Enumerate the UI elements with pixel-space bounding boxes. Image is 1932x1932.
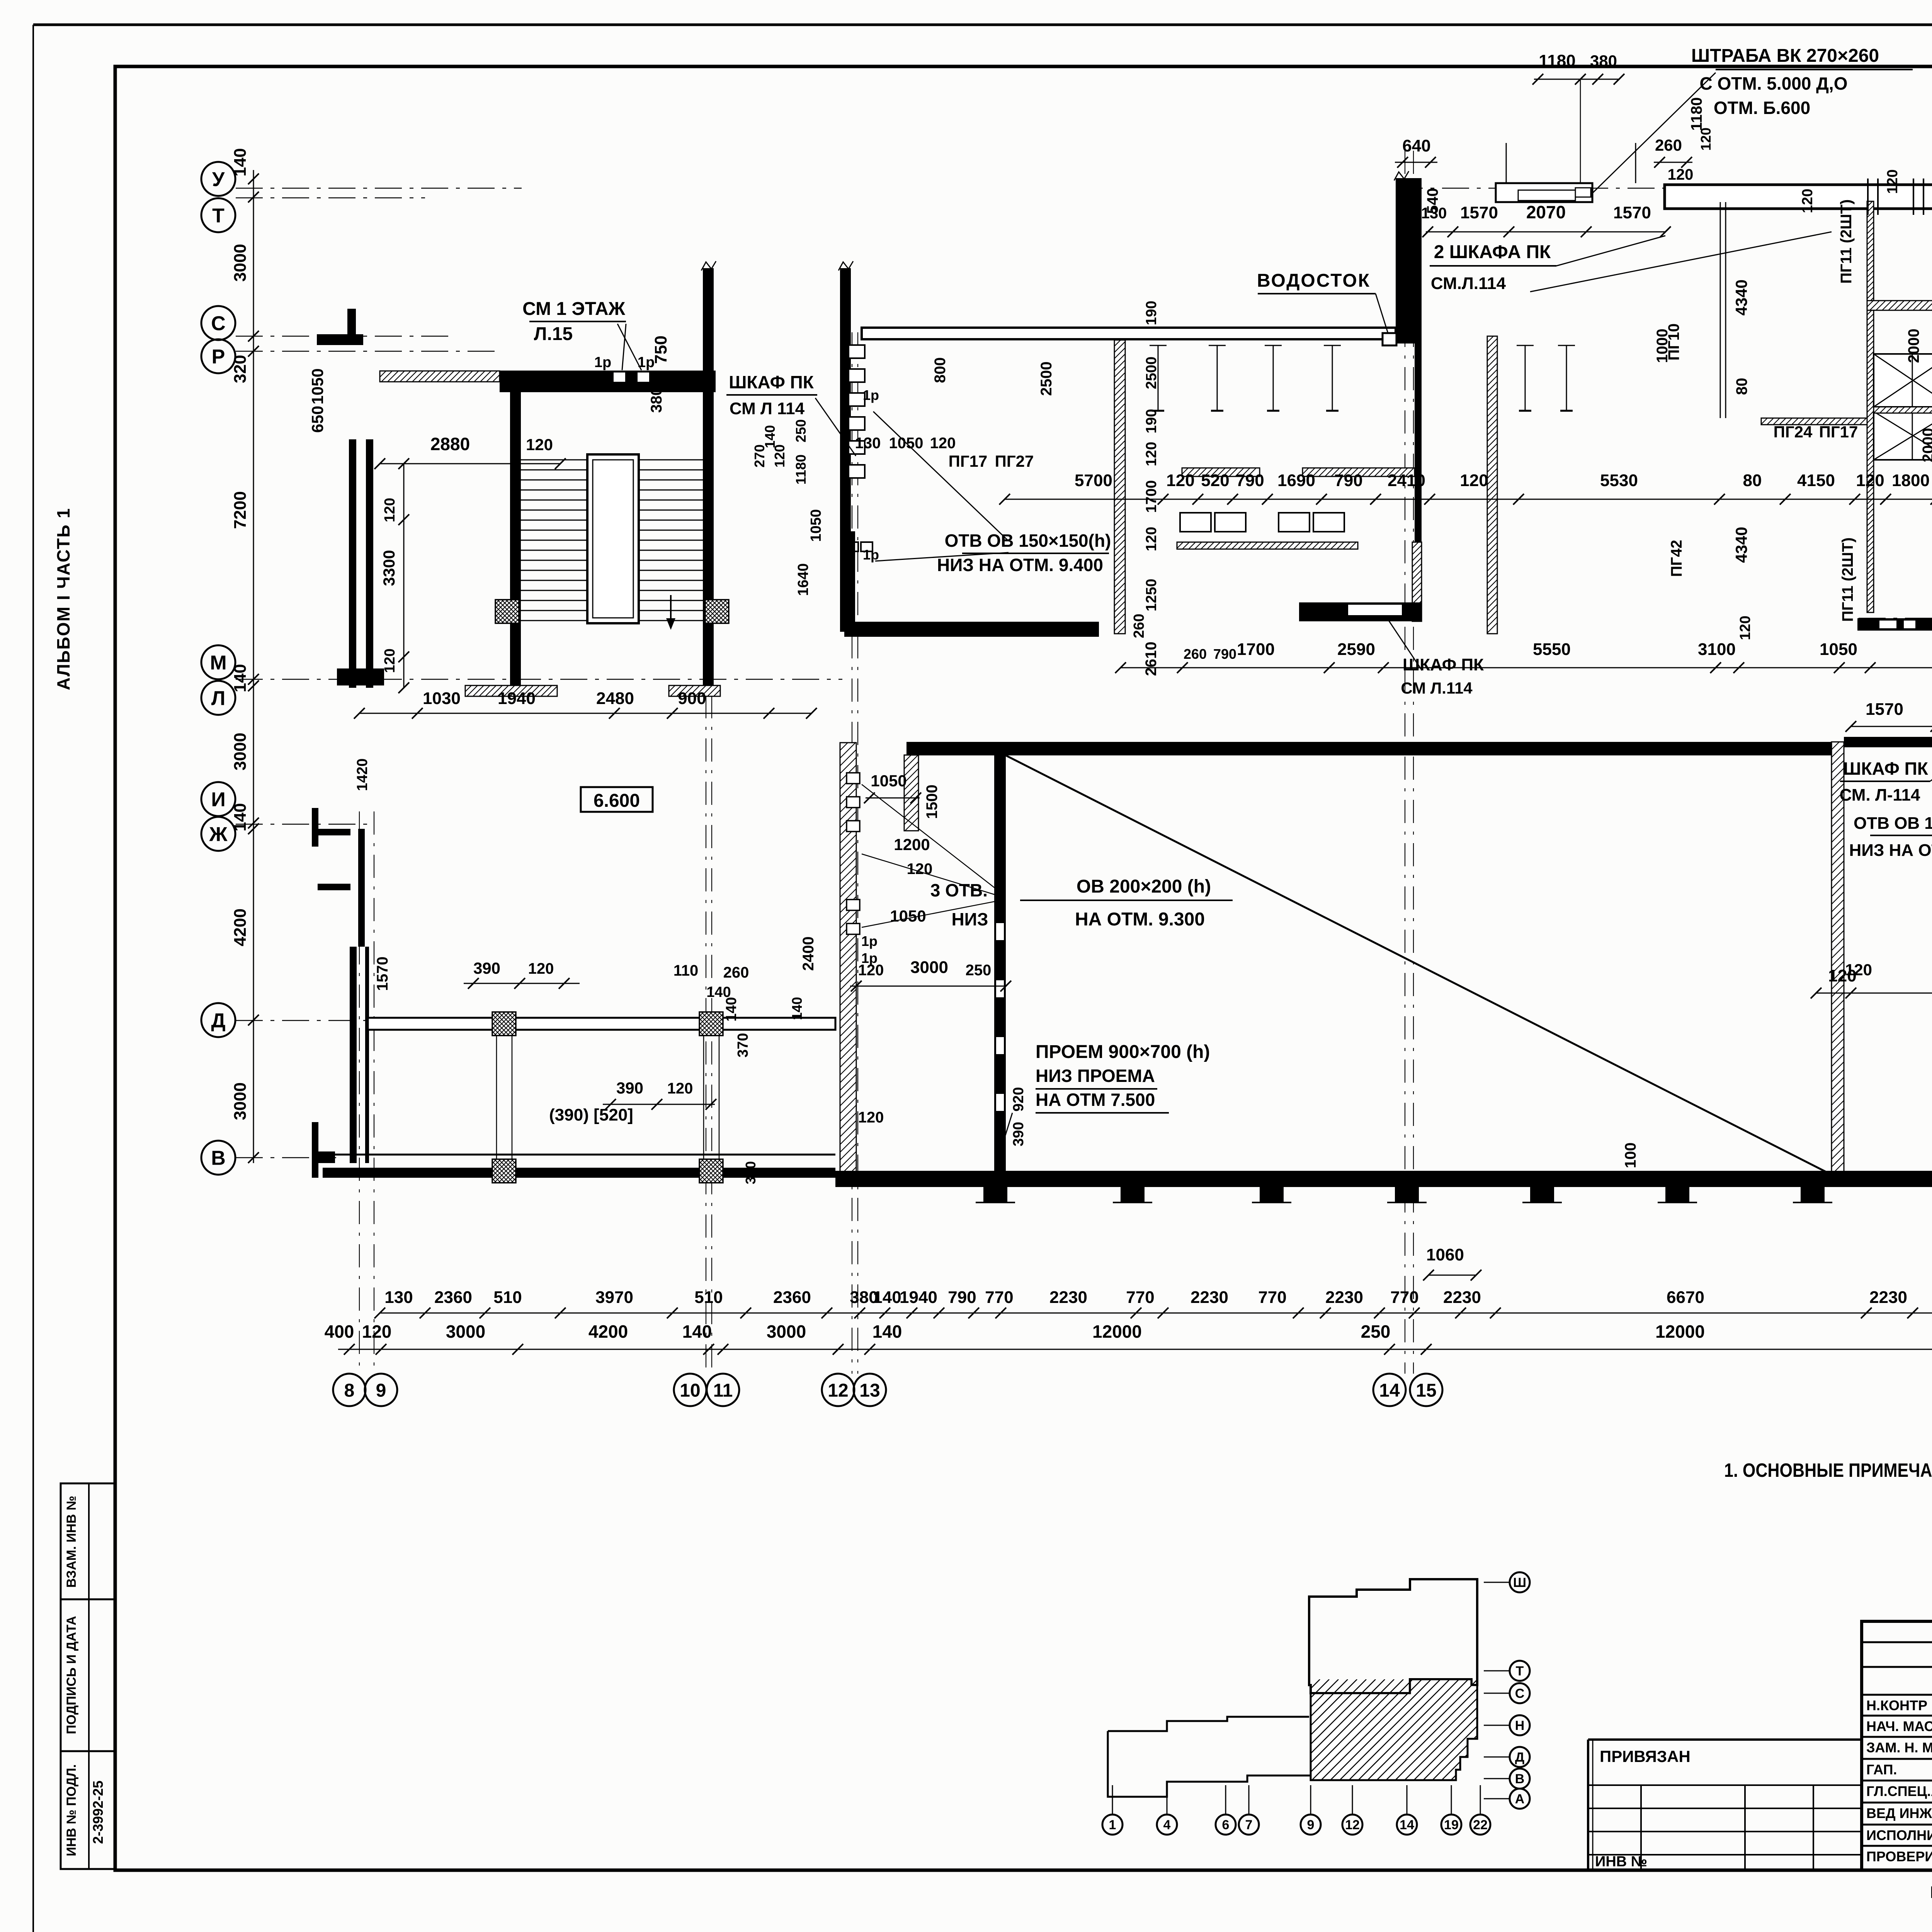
svg-text:Ж: Ж <box>209 823 228 846</box>
bottom dim chain row1 <box>380 1313 1932 1314</box>
svg-text:770: 770 <box>1126 1288 1154 1307</box>
svg-text:7: 7 <box>1245 1818 1253 1832</box>
svg-text:СМ 1 ЭТАЖ: СМ 1 ЭТАЖ <box>522 299 625 319</box>
axis bubbles left <box>201 162 235 196</box>
svg-text:120: 120 <box>526 435 553 454</box>
svg-text:Л.15: Л.15 <box>534 324 573 344</box>
svg-text:7200: 7200 <box>231 491 250 529</box>
svg-text:5550: 5550 <box>1533 640 1571 659</box>
svg-text:1690: 1690 <box>1277 471 1315 490</box>
svg-text:3000: 3000 <box>231 244 250 282</box>
svg-text:800: 800 <box>932 357 949 383</box>
svg-text:140: 140 <box>682 1321 712 1342</box>
wall: corridor north <box>368 1018 835 1030</box>
svg-text:ИНВ №: ИНВ № <box>1595 1854 1647 1870</box>
svg-text:390: 390 <box>743 1161 759 1184</box>
svg-text:19: 19 <box>1444 1818 1459 1832</box>
svg-text:650: 650 <box>308 406 327 433</box>
svg-text:2230: 2230 <box>1190 1288 1228 1307</box>
svg-text:250: 250 <box>966 962 992 979</box>
svg-text:390: 390 <box>616 1079 643 1097</box>
wall: gym east (hatched) <box>1832 742 1844 1175</box>
svg-text:Д: Д <box>1515 1750 1524 1765</box>
svg-text:2 ШКАФА ПК: 2 ШКАФА ПК <box>1434 242 1551 262</box>
partition west of block <box>1720 202 1721 418</box>
svg-text:5530: 5530 <box>1600 471 1638 490</box>
svg-text:2500: 2500 <box>1143 357 1160 389</box>
svg-text:2230: 2230 <box>1869 1288 1907 1307</box>
svg-text:2360: 2360 <box>773 1288 811 1307</box>
svg-text:ОВ 200×200 (h): ОВ 200×200 (h) <box>1077 876 1211 897</box>
svg-text:120: 120 <box>1845 961 1872 979</box>
svg-text:ПРОЕМ 900×700 (h): ПРОЕМ 900×700 (h) <box>1036 1042 1210 1062</box>
svg-text:510: 510 <box>694 1288 723 1307</box>
radiator boxes <box>1180 513 1211 532</box>
svg-text:250: 250 <box>1361 1321 1391 1342</box>
svg-text:400: 400 <box>325 1321 354 1342</box>
svg-text:3000: 3000 <box>910 958 948 977</box>
svg-text:3000: 3000 <box>231 1082 250 1120</box>
wall: vodostok east wall <box>1396 178 1422 232</box>
svg-text:250: 250 <box>793 419 809 442</box>
svg-text:790: 790 <box>1213 646 1236 662</box>
svg-text:1р: 1р <box>861 933 878 949</box>
svg-text:ШТРАБА ВК 270×260: ШТРАБА ВК 270×260 <box>1691 46 1879 66</box>
svg-text:АЛЬБОМ I ЧАСТЬ 1: АЛЬБОМ I ЧАСТЬ 1 <box>53 508 73 690</box>
walls: stair bottom <box>337 668 384 685</box>
vertical axis lines down to bubbles <box>359 811 360 1374</box>
svg-text:НИЗ ПРОЕМА: НИЗ ПРОЕМА <box>1036 1066 1155 1086</box>
svg-text:1050: 1050 <box>871 772 906 790</box>
svg-text:3100: 3100 <box>1698 640 1736 659</box>
svg-text:790: 790 <box>1236 471 1264 490</box>
svg-text:3970: 3970 <box>595 1288 633 1307</box>
штраба detail <box>1496 183 1592 202</box>
svg-text:140: 140 <box>723 997 740 1021</box>
svg-text:120: 120 <box>1143 442 1160 466</box>
svg-text:1000: 1000 <box>1654 329 1671 363</box>
svg-text:790: 790 <box>948 1288 976 1307</box>
svg-text:У: У <box>212 168 225 191</box>
svg-text:190: 190 <box>1143 409 1160 433</box>
svg-text:Ш: Ш <box>1513 1575 1526 1590</box>
svg-text:770: 770 <box>985 1288 1013 1307</box>
И/Ж axis brackets <box>313 829 350 835</box>
outer border <box>33 24 1932 26</box>
svg-text:Т: Т <box>212 205 224 227</box>
svg-text:100: 100 <box>1622 1143 1639 1168</box>
wall: middle west <box>840 268 851 632</box>
svg-text:4150: 4150 <box>1797 471 1835 490</box>
svg-text:120: 120 <box>528 960 554 977</box>
svg-text:640: 640 <box>1402 136 1430 155</box>
svg-text:В: В <box>211 1147 226 1170</box>
svg-text:15: 15 <box>1416 1380 1436 1401</box>
svg-text:790: 790 <box>1334 471 1362 490</box>
svg-text:12000: 12000 <box>1655 1321 1705 1342</box>
svg-text:1570: 1570 <box>1613 203 1651 222</box>
svg-text:6670: 6670 <box>1667 1288 1704 1307</box>
privyazan table <box>1588 1738 1862 1741</box>
wall: middle lower west L <box>844 531 855 632</box>
svg-text:1200: 1200 <box>894 835 930 854</box>
svg-text:2000: 2000 <box>1905 329 1922 363</box>
svg-text:ВЗАМ. ИНВ №: ВЗАМ. ИНВ № <box>64 1496 79 1588</box>
svg-text:Л: Л <box>211 687 226 710</box>
svg-text:190: 190 <box>1143 301 1160 325</box>
svg-text:12000: 12000 <box>1092 1321 1142 1342</box>
svg-text:НИЗ НА ОТМ. 9.400: НИЗ НА ОТМ. 9.400 <box>937 555 1103 575</box>
svg-text:1180: 1180 <box>1539 51 1575 70</box>
svg-text:3300: 3300 <box>380 550 398 586</box>
svg-text:120: 120 <box>382 498 398 522</box>
svg-text:1030: 1030 <box>423 689 461 708</box>
key plan low-rise outline <box>1108 1717 1456 1797</box>
svg-text:2-3992-25: 2-3992-25 <box>90 1781 106 1844</box>
svg-text:1940: 1940 <box>498 689 536 708</box>
svg-text:380: 380 <box>648 387 665 413</box>
svg-text:4340: 4340 <box>1732 527 1750 563</box>
svg-text:920: 920 <box>1010 1087 1027 1111</box>
svg-text:НА ОТМ 7.500: НА ОТМ 7.500 <box>1036 1090 1155 1110</box>
wall: H south segments <box>1857 618 1932 631</box>
svg-text:ШКАФ ПК: ШКАФ ПК <box>1403 655 1484 674</box>
svg-text:ВЕД ИНЖ: ВЕД ИНЖ <box>1866 1805 1932 1821</box>
svg-text:510: 510 <box>493 1288 522 1307</box>
svg-text:120: 120 <box>1799 189 1816 213</box>
svg-text:2400: 2400 <box>800 937 817 971</box>
svg-text:С: С <box>1515 1686 1525 1701</box>
wall: corridor south (В) <box>323 1154 835 1156</box>
svg-text:СМ. Л-114: СМ. Л-114 <box>1840 786 1920 804</box>
svg-text:НИЗ НА ОТМ.8.900: НИЗ НА ОТМ.8.900 <box>1849 841 1932 860</box>
svg-text:2480: 2480 <box>596 689 634 708</box>
svg-text:260: 260 <box>1655 136 1682 154</box>
svg-text:ПГ24: ПГ24 <box>1774 423 1813 441</box>
svg-text:1570: 1570 <box>374 957 391 991</box>
svg-text:3 ОТВ.: 3 ОТВ. <box>930 880 988 900</box>
svg-text:370: 370 <box>735 1033 751 1057</box>
svg-text:2500: 2500 <box>1038 362 1055 396</box>
svg-text:22: 22 <box>1473 1818 1488 1832</box>
svg-text:120: 120 <box>1668 166 1694 183</box>
partition ПГ24/ПГ17 <box>1761 418 1867 425</box>
svg-text:3000: 3000 <box>767 1321 806 1342</box>
wall: stair east / exterior <box>703 268 714 688</box>
shaft block <box>1867 201 1874 612</box>
svg-text:6.600: 6.600 <box>594 791 640 811</box>
svg-text:140: 140 <box>873 1288 901 1307</box>
svg-text:9: 9 <box>376 1380 386 1401</box>
svg-text:14: 14 <box>1400 1818 1414 1832</box>
left exterior double wall <box>349 439 356 688</box>
svg-text:1: 1 <box>1109 1818 1116 1832</box>
svg-text:НИЗ: НИЗ <box>951 909 988 929</box>
svg-text:Т: Т <box>1516 1664 1524 1679</box>
bottom axis bubbles <box>333 1374 366 1406</box>
wall: middle top <box>862 328 1396 339</box>
svg-text:1700: 1700 <box>1143 480 1160 513</box>
svg-text:СМ Л.114: СМ Л.114 <box>1401 679 1473 697</box>
svg-text:520: 520 <box>1201 471 1229 490</box>
svg-text:12: 12 <box>1345 1818 1360 1832</box>
svg-text:ВОДОСТОК: ВОДОСТОК <box>1257 270 1371 291</box>
svg-text:М: М <box>210 652 226 674</box>
svg-text:2590: 2590 <box>1337 640 1375 659</box>
svg-text:11: 11 <box>713 1380 733 1401</box>
svg-text:НАЧ. МАСТ: НАЧ. МАСТ <box>1866 1718 1932 1734</box>
interior hatched partitions <box>1182 468 1260 476</box>
svg-text:1р: 1р <box>594 354 611 371</box>
svg-text:130: 130 <box>1421 205 1447 222</box>
svg-text:1050: 1050 <box>1820 640 1857 659</box>
svg-text:ЗАМ. Н. М: ЗАМ. Н. М <box>1866 1740 1932 1755</box>
svg-text:80: 80 <box>1743 471 1762 490</box>
svg-text:ИНВ № ПОДЛ.: ИНВ № ПОДЛ. <box>64 1764 79 1856</box>
svg-text:320: 320 <box>231 355 250 383</box>
svg-text:4: 4 <box>1163 1818 1171 1832</box>
svg-text:1500: 1500 <box>923 785 940 819</box>
left vertical dim chain <box>253 170 254 1163</box>
svg-text:3000: 3000 <box>231 733 250 770</box>
svg-text:1р: 1р <box>863 547 879 563</box>
svg-text:1700: 1700 <box>1237 640 1275 659</box>
svg-text:1. ОСНОВНЫЕ ПРИМЕЧАНИЯ ПО КЛАД: 1. ОСНОВНЫЕ ПРИМЕЧАНИЯ ПО КЛАДКЕ СМ.Л.12 <box>1724 1459 1932 1481</box>
svg-text:2360: 2360 <box>434 1288 472 1307</box>
svg-text:1050: 1050 <box>308 368 327 404</box>
svg-text:1570: 1570 <box>1460 203 1498 222</box>
svg-text:1180: 1180 <box>793 454 809 485</box>
svg-text:2880: 2880 <box>430 434 470 454</box>
svg-text:1р: 1р <box>863 387 879 403</box>
svg-text:120: 120 <box>1143 527 1160 551</box>
svg-text:12: 12 <box>828 1380 848 1401</box>
svg-text:4200: 4200 <box>231 908 250 946</box>
svg-text:6: 6 <box>1222 1818 1230 1832</box>
svg-text:2230: 2230 <box>1325 1288 1363 1307</box>
wall: block west (hatched) <box>840 743 856 1175</box>
svg-text:130: 130 <box>384 1288 413 1307</box>
svg-text:А: А <box>1515 1792 1525 1806</box>
wall: stair west <box>510 392 521 688</box>
svg-text:140: 140 <box>789 997 805 1020</box>
svg-text:1940: 1940 <box>900 1288 937 1307</box>
svg-text:120: 120 <box>1166 471 1194 490</box>
svg-text:1050: 1050 <box>808 509 824 542</box>
svg-text:120: 120 <box>1856 471 1884 490</box>
left margin stamp table <box>61 1483 115 1869</box>
svg-text:Н: Н <box>1515 1718 1525 1733</box>
svg-text:2070: 2070 <box>1526 202 1566 222</box>
svg-text:140: 140 <box>231 664 250 692</box>
svg-text:С ОТМ. 5.000 Д,О: С ОТМ. 5.000 Д,О <box>1700 73 1848 94</box>
window tick rows <box>1158 345 1159 411</box>
svg-text:80: 80 <box>1733 378 1750 395</box>
svg-text:120: 120 <box>930 435 956 452</box>
svg-text:770: 770 <box>1258 1288 1286 1307</box>
svg-text:ОТВ ОВ 170×170(h): ОТВ ОВ 170×170(h) <box>1854 814 1932 833</box>
svg-text:ГЛ.СПЕЦ.АР.: ГЛ.СПЕЦ.АР. <box>1866 1783 1932 1799</box>
svg-text:120: 120 <box>1884 169 1901 194</box>
svg-text:390: 390 <box>473 959 500 977</box>
key plan bottom callouts <box>1102 1815 1122 1835</box>
svg-text:8: 8 <box>344 1380 355 1401</box>
corner walls at Р axis <box>317 334 363 345</box>
svg-text:140: 140 <box>231 148 250 176</box>
partition vertical 12/13 <box>1114 340 1125 634</box>
svg-text:120: 120 <box>858 1109 884 1126</box>
svg-text:390: 390 <box>1010 1122 1027 1146</box>
svg-text:120: 120 <box>667 1080 693 1097</box>
break mark top of wall <box>701 261 716 270</box>
stair well <box>587 454 639 623</box>
svg-text:3000: 3000 <box>446 1321 485 1342</box>
wall: top exterior (У) <box>1665 185 1932 209</box>
wall: gym/building bottom (В) <box>835 1171 1932 1187</box>
bottom dim chain row2 <box>338 1349 1932 1350</box>
window tick pairs on У wall <box>1867 179 1869 215</box>
window piers below <box>983 1187 1007 1202</box>
svg-text:НА ОТМ. 9.300: НА ОТМ. 9.300 <box>1075 909 1205 930</box>
svg-text:ПГ11 (2ШТ): ПГ11 (2ШТ) <box>1838 199 1855 284</box>
svg-text:В: В <box>1515 1772 1525 1786</box>
svg-text:120: 120 <box>382 648 398 673</box>
svg-text:750: 750 <box>651 335 670 364</box>
svg-text:1180: 1180 <box>1688 97 1705 131</box>
wall: middle bottom segments <box>844 622 1099 637</box>
svg-text:С: С <box>211 313 226 335</box>
svg-text:Н.КОНТР: Н.КОНТР <box>1866 1697 1927 1713</box>
svg-text:14: 14 <box>1379 1380 1400 1401</box>
stair treads <box>521 460 703 621</box>
svg-text:120: 120 <box>1737 616 1753 640</box>
svg-text:ОТВ ОВ 150×150(h): ОТВ ОВ 150×150(h) <box>945 531 1111 551</box>
svg-text:ПОДПИСЬ И ДАТА: ПОДПИСЬ И ДАТА <box>64 1616 79 1734</box>
svg-text:120: 120 <box>858 962 884 979</box>
wall: stair top landing <box>500 371 716 392</box>
svg-text:2230: 2230 <box>1443 1288 1481 1307</box>
column lines <box>496 1036 497 1159</box>
svg-text:ПГ17: ПГ17 <box>1819 423 1858 441</box>
wall: gym west <box>994 755 1006 1175</box>
stair arrow <box>670 595 672 628</box>
svg-text:380: 380 <box>1590 52 1617 70</box>
svg-text:2610: 2610 <box>1143 642 1160 676</box>
svg-text:1060: 1060 <box>1426 1245 1464 1264</box>
svg-text:1250: 1250 <box>1143 579 1160 612</box>
svg-text:4200: 4200 <box>588 1321 628 1342</box>
svg-text:10: 10 <box>680 1380 700 1401</box>
key plan axis callouts right <box>1510 1572 1530 1592</box>
svg-text:2230: 2230 <box>1049 1288 1087 1307</box>
svg-text:И: И <box>211 789 225 811</box>
svg-text:13: 13 <box>859 1380 880 1401</box>
svg-text:5700: 5700 <box>1075 471 1112 490</box>
svg-text:2410: 2410 <box>1388 471 1425 490</box>
partition vertical at 3850 <box>1487 336 1497 634</box>
svg-text:2000: 2000 <box>1920 428 1932 463</box>
svg-text:120: 120 <box>1698 128 1714 151</box>
svg-text:140: 140 <box>872 1321 902 1342</box>
svg-text:130: 130 <box>855 435 881 452</box>
svg-text:120: 120 <box>362 1321 392 1342</box>
svg-text:ОТМ. Б.600: ОТМ. Б.600 <box>1714 98 1810 118</box>
svg-text:9: 9 <box>1307 1818 1315 1832</box>
svg-text:140: 140 <box>231 803 250 831</box>
svg-text:ПГ17: ПГ17 <box>949 452 988 470</box>
svg-text:(390) [520]: (390) [520] <box>549 1105 633 1124</box>
svg-text:ПГ11 (2ШТ): ПГ11 (2ШТ) <box>1839 537 1856 622</box>
svg-text:120: 120 <box>772 444 787 468</box>
svg-text:ПРОВЕРИЛ: ПРОВЕРИЛ <box>1866 1849 1932 1864</box>
svg-text:1640: 1640 <box>795 563 811 596</box>
corner B-left <box>312 1122 318 1178</box>
wall: stair2 top (К) <box>1844 737 1932 747</box>
wall: gym top (К axis) <box>906 742 1832 755</box>
svg-text:Р: Р <box>212 346 225 368</box>
svg-text:Д: Д <box>211 1010 225 1032</box>
svg-text:120: 120 <box>1460 471 1488 490</box>
svg-text:СМ Л 114: СМ Л 114 <box>730 399 805 418</box>
big diagonal <box>1006 755 1832 1175</box>
svg-text:ПРИВЯЗАН: ПРИВЯЗАН <box>1600 1747 1690 1765</box>
columns hatched <box>495 600 519 623</box>
svg-text:ГАП.: ГАП. <box>1866 1762 1897 1777</box>
svg-text:260: 260 <box>1131 614 1147 638</box>
svg-text:СМ.Л.114: СМ.Л.114 <box>1431 274 1506 293</box>
svg-text:ПГ27: ПГ27 <box>995 452 1034 470</box>
svg-text:1800: 1800 <box>1892 471 1930 490</box>
svg-text:900: 900 <box>678 689 706 708</box>
svg-text:ШКАФ ПК: ШКАФ ПК <box>729 372 814 392</box>
svg-text:4340: 4340 <box>1732 279 1750 315</box>
svg-text:ПГ42: ПГ42 <box>1668 540 1685 577</box>
svg-text:260: 260 <box>723 964 749 981</box>
svg-text:110: 110 <box>673 962 699 979</box>
svg-text:ИСПОЛНИЛ: ИСПОЛНИЛ <box>1866 1827 1932 1843</box>
шкаф ПК boxes column <box>849 345 865 358</box>
svg-text:ШКАФ ПК: ШКАФ ПК <box>1843 759 1928 779</box>
svg-text:1420: 1420 <box>354 759 371 791</box>
svg-text:260: 260 <box>1184 646 1207 662</box>
svg-text:1570: 1570 <box>1866 700 1903 719</box>
horizontal axis lines <box>236 188 522 189</box>
svg-text:КОПИРОВАЛ: КОПИРОВАЛ <box>1930 1883 1932 1902</box>
